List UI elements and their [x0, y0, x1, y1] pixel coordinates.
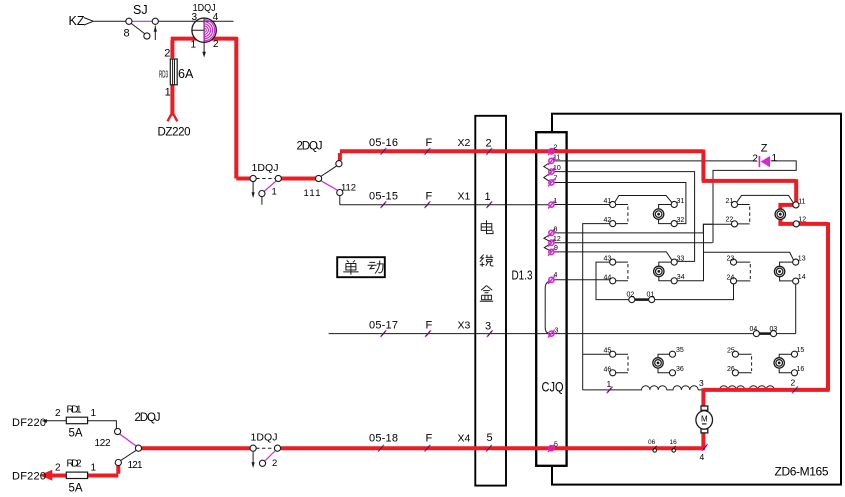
contact circles 41 42 31 32 — [610, 201, 678, 226]
wire pin 12 branch — [554, 242, 712, 244]
svg-text:5A: 5A — [69, 483, 83, 495]
label DF220 bottom — [12, 459, 97, 495]
contact circles 21 22 11 12 — [731, 201, 799, 227]
label diode Z — [752, 143, 777, 165]
svg-text:2: 2 — [752, 153, 758, 164]
svg-text:5: 5 — [487, 432, 493, 444]
contact 1DQJ bottom arrow — [252, 452, 255, 468]
label fuse RD3 — [159, 47, 194, 98]
diode Z — [759, 156, 770, 167]
svg-text:9: 9 — [554, 245, 558, 252]
svg-text:12: 12 — [798, 217, 806, 224]
label SJ — [124, 3, 148, 40]
svg-text:1: 1 — [485, 191, 491, 203]
fuse RD2 — [66, 472, 87, 478]
svg-text:DF220: DF220 — [12, 471, 46, 483]
winding left with bumps — [583, 386, 704, 390]
svg-text:14: 14 — [798, 274, 806, 281]
wire 05-15 X1 row — [340, 204, 549, 206]
svg-text:X2: X2 — [458, 137, 471, 149]
connector box CJQ — [536, 132, 566, 466]
svg-text:2: 2 — [55, 408, 61, 419]
svg-text:11: 11 — [798, 198, 805, 205]
contact 2DQJ bottom lower arm — [120, 450, 136, 461]
label ZD6-M165 — [775, 465, 829, 479]
svg-text:12: 12 — [553, 236, 561, 243]
svg-text:2: 2 — [164, 47, 170, 59]
contact SJ — [131, 23, 157, 40]
coil stubs 15-16 — [779, 354, 791, 373]
wire red 121 to DF220 — [50, 465, 119, 476]
svg-text:22: 22 — [726, 217, 734, 224]
svg-text:CJQ: CJQ — [542, 379, 564, 395]
svg-text:1: 1 — [91, 408, 97, 419]
contact circles 23 24 13 14 — [730, 259, 798, 284]
coil group6 — [774, 358, 784, 368]
contact 2DQJ mid upper arm — [321, 166, 340, 205]
wire slashes row X1 — [381, 201, 493, 208]
wire contact 42 to winding 1 — [583, 224, 610, 390]
svg-text:RD3: RD3 — [159, 70, 168, 81]
coil stubs 35-36 — [658, 354, 670, 373]
char 缆 — [480, 255, 494, 267]
wire contact 34 / 22 / arm 13 — [677, 224, 794, 281]
svg-text:3: 3 — [699, 378, 704, 388]
fuse RD3 — [170, 59, 177, 85]
char 动 — [368, 260, 383, 273]
contact 02-01 — [629, 297, 655, 303]
svg-text:2: 2 — [55, 463, 61, 474]
svg-text:1DQJ: 1DQJ — [252, 162, 279, 174]
svg-text:2: 2 — [791, 378, 796, 388]
wire red 1DQJ to 2DQJ mid — [281, 177, 316, 181]
wire DF220 upper lead — [42, 419, 117, 429]
coil group1 — [653, 209, 663, 219]
svg-text:1: 1 — [191, 40, 197, 51]
wire slashes row X3 — [381, 330, 493, 337]
label contacts left column — [604, 198, 685, 373]
coil stubs 31-32 — [659, 205, 672, 224]
label DF220 top — [12, 405, 97, 440]
label 122 121 2DQJ — [95, 412, 161, 471]
wire pin 7 branch to contact 32 — [554, 183, 686, 224]
svg-text:8: 8 — [124, 28, 130, 40]
label row 05-17 — [369, 320, 491, 333]
arrow DF220 red — [39, 470, 52, 481]
svg-text:D1.3: D1.3 — [512, 268, 533, 283]
svg-text:31: 31 — [677, 198, 685, 205]
svg-text:6A: 6A — [178, 67, 194, 81]
contact 1DQJ mid circles — [250, 175, 281, 196]
svg-text:10: 10 — [553, 165, 561, 172]
svg-text:16: 16 — [670, 439, 678, 446]
svg-text:33: 33 — [677, 256, 685, 263]
coil group2 — [775, 209, 785, 219]
label winding pins — [607, 378, 796, 463]
svg-text:111: 111 — [304, 188, 321, 199]
char 盒 — [480, 286, 493, 302]
coil group4 — [774, 266, 784, 276]
wire contact 01 to contact 24 — [655, 284, 734, 300]
label 1DQJ bottom — [251, 432, 278, 470]
CJQ pin chevrons — [544, 162, 552, 252]
svg-text:41: 41 — [604, 198, 612, 205]
svg-text:1: 1 — [91, 463, 97, 474]
coil group5 — [653, 358, 663, 368]
cable box 电缆盒 — [475, 116, 506, 486]
label row 05-18 — [369, 432, 493, 445]
wire slashes row X4 — [378, 445, 492, 452]
svg-text:3: 3 — [555, 327, 559, 334]
svg-text:X3: X3 — [458, 320, 471, 332]
svg-text:1: 1 — [272, 187, 277, 198]
svg-text:43: 43 — [604, 256, 612, 263]
svg-text:15: 15 — [797, 347, 805, 354]
svg-text:112: 112 — [341, 183, 356, 194]
wire red X4 row to 2DQJ bottom — [141, 446, 250, 450]
svg-text:DZ220: DZ220 — [158, 127, 191, 139]
wire pin 1 to contact 41 — [554, 204, 610, 206]
coil group3 — [654, 266, 664, 276]
relay 1DQJ rotary arrow — [202, 43, 206, 58]
contact circles 43 44 33 34 — [610, 259, 678, 284]
svg-text:DF220: DF220 — [12, 417, 46, 429]
svg-text:8: 8 — [554, 227, 558, 234]
svg-text:1DQJ: 1DQJ — [251, 432, 278, 444]
svg-text:25: 25 — [727, 347, 735, 354]
svg-text:16: 16 — [797, 366, 805, 373]
svg-text:4: 4 — [700, 452, 705, 462]
svg-text:24: 24 — [727, 275, 735, 282]
svg-text:46: 46 — [604, 366, 612, 373]
svg-text:34: 34 — [677, 274, 685, 281]
svg-text:ZD6-M165: ZD6-M165 — [775, 465, 829, 479]
label 1DQJ mid — [252, 162, 279, 198]
wire SJ to 1DQJ rotary — [158, 20, 233, 22]
wire red top loop via 1DQJ rotary — [171, 37, 251, 179]
svg-text:05-15: 05-15 — [369, 191, 398, 203]
node KZ label — [69, 14, 85, 28]
CJQ pins — [548, 147, 555, 452]
wire diode Z branch from pin 11 — [554, 161, 796, 243]
svg-text:2: 2 — [554, 144, 558, 151]
contact circles 45 46 35 36 — [610, 351, 676, 376]
svg-text:F: F — [426, 433, 433, 445]
svg-text:35: 35 — [676, 347, 684, 354]
contact group 41-42 bracket — [616, 205, 628, 224]
svg-text:2: 2 — [272, 458, 277, 469]
svg-text:02: 02 — [627, 291, 635, 298]
outer box ZD6-M165 — [552, 114, 841, 485]
node DZ220 — [158, 127, 191, 139]
svg-text:32: 32 — [677, 217, 685, 224]
svg-text:M: M — [701, 415, 708, 424]
svg-text:X4: X4 — [458, 433, 471, 445]
wire slashes winding row — [607, 387, 798, 451]
svg-text:21: 21 — [726, 198, 734, 205]
svg-text:42: 42 — [604, 217, 612, 224]
wire pins 4-3 bracket curve — [545, 281, 551, 334]
svg-text:4: 4 — [213, 12, 219, 23]
label 1DQJ rotary pins — [191, 2, 220, 51]
wire 05-17 X3 row — [329, 284, 796, 334]
contact circles 25 26 15 16 — [732, 351, 797, 376]
contact 1DQJ bottom dashed gap — [256, 447, 275, 449]
box 单动 — [337, 257, 385, 277]
wire pin 8 branch — [554, 224, 713, 233]
svg-text:F: F — [426, 137, 433, 149]
relay 1DQJ rotary — [192, 18, 216, 42]
svg-text:RD1: RD1 — [67, 405, 82, 416]
svg-text:01: 01 — [647, 291, 655, 298]
wire red DZ220 fuse leg — [170, 85, 174, 116]
svg-text:06: 06 — [648, 439, 656, 446]
contact 04-03 — [753, 331, 776, 337]
wire red 05-18 X4 row — [281, 446, 705, 450]
svg-text:11: 11 — [553, 154, 560, 161]
svg-text:2DQJ: 2DQJ — [135, 412, 161, 424]
motor M — [696, 406, 713, 433]
svg-text:04: 04 — [750, 326, 758, 333]
contact group 43-44 bracket — [616, 262, 628, 281]
arrow DZ220 — [168, 112, 178, 121]
wire pin 10 branch to contact 33 — [554, 172, 694, 262]
wire red contact 11 to 12 through coil — [780, 205, 793, 224]
svg-text:2: 2 — [213, 39, 219, 50]
contact group 45-46 bracket — [616, 354, 628, 373]
wire contact 43 to contact 02 — [596, 262, 629, 300]
coil stubs 33-34 — [659, 262, 672, 281]
svg-text:1: 1 — [165, 87, 171, 99]
svg-text:23: 23 — [727, 256, 735, 263]
svg-text:13: 13 — [798, 255, 806, 262]
contact group 25-26 bracket — [738, 354, 751, 373]
contact 2DQJ bottom circles — [115, 428, 142, 465]
wire red 05-16 X2 row to contact 11 — [340, 150, 796, 202]
contact 1DQJ mid (dashed gap) — [256, 178, 275, 180]
svg-text:122: 122 — [95, 438, 111, 449]
wire pin 9 to contact 33 — [554, 252, 671, 260]
wire slashes row X2 — [381, 148, 493, 155]
char 单 — [343, 260, 358, 274]
svg-text:5: 5 — [554, 441, 558, 448]
contact group 23-24 bracket — [736, 262, 750, 281]
contact group 41-31 arm — [615, 196, 672, 203]
terminals on motor row — [653, 446, 676, 452]
svg-text:03: 03 — [770, 326, 778, 333]
char 电 — [481, 220, 493, 233]
svg-text:RD2: RD2 — [67, 459, 82, 470]
svg-text:05-16: 05-16 — [369, 137, 398, 149]
label CJQ — [542, 379, 564, 395]
label D1.3 — [512, 268, 533, 283]
svg-text:121: 121 — [128, 460, 143, 471]
svg-text:KZ: KZ — [69, 14, 85, 28]
label 2DQJ mid — [297, 141, 357, 200]
contact 1DQJ bottom circles — [250, 445, 281, 466]
svg-text:7: 7 — [554, 176, 558, 183]
wire pin 4 to contact 44 — [554, 279, 610, 281]
svg-text:1: 1 — [554, 198, 558, 205]
svg-text:4: 4 — [554, 272, 558, 279]
contact 2DQJ mid circles — [316, 161, 343, 196]
svg-text:2DQJ: 2DQJ — [297, 141, 323, 153]
label contacts right column — [726, 198, 807, 373]
winding right bumps — [720, 386, 775, 390]
svg-text:Z: Z — [761, 143, 768, 155]
wire KZ lead-in — [84, 18, 126, 25]
contact group 21-22 bracket and arm 21-11 — [737, 195, 794, 224]
fuse RD1 — [66, 417, 87, 424]
svg-text:05-18: 05-18 — [369, 433, 398, 445]
label CJQ pins — [553, 144, 561, 448]
wire red motor leg — [701, 388, 705, 448]
svg-text:1: 1 — [607, 379, 612, 389]
svg-text:X1: X1 — [458, 191, 471, 203]
coil stubs 13-14 — [780, 262, 793, 281]
label row 05-16 — [369, 137, 492, 150]
svg-text:36: 36 — [676, 366, 684, 373]
label row 05-15 — [369, 191, 491, 204]
svg-text:2: 2 — [486, 138, 492, 150]
svg-text:SJ: SJ — [133, 3, 148, 17]
svg-text:26: 26 — [727, 366, 735, 373]
svg-text:3: 3 — [485, 321, 491, 333]
wire red contact 12 to winding 2 — [703, 222, 829, 390]
svg-text:F: F — [426, 320, 433, 332]
svg-text:05-17: 05-17 — [369, 320, 398, 332]
contact 1DQJ mid arrow — [252, 182, 262, 205]
svg-text:44: 44 — [604, 274, 612, 281]
svg-text:5A: 5A — [69, 428, 83, 440]
svg-text:F: F — [426, 191, 433, 203]
svg-text:45: 45 — [604, 348, 612, 355]
contact SJ circles and link — [126, 18, 159, 39]
svg-text:3: 3 — [192, 12, 198, 23]
svg-text:1: 1 — [772, 153, 778, 164]
